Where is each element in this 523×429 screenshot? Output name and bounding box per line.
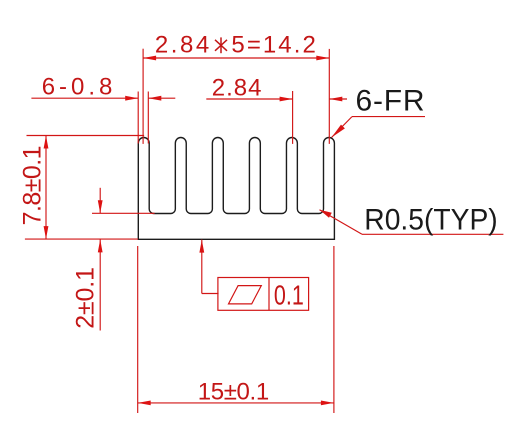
dim 6-0.8 arrow left (outside, pointing right) bbox=[125, 96, 138, 101]
dim 2.84 arrow left (outside, pointing right) bbox=[280, 97, 293, 102]
label 6-FR leader underline bbox=[352, 116, 425, 118]
svg-text:15±0.1: 15±0.1 bbox=[198, 379, 270, 406]
dim 2.84*5=14.2 dimension line bbox=[143, 57, 329, 59]
dim 7.8±0.1 extension line top bbox=[27, 135, 145, 137]
flatness parallelogram symbol bbox=[229, 286, 262, 304]
dim 2.84*5=14.2 arrow left bbox=[143, 56, 156, 61]
dim 15±0.1 extension line right bbox=[333, 246, 335, 413]
dim 2.84*5=14.2 extension line right (fin6 center) bbox=[328, 49, 330, 144]
dim 2±0.1 arrow down (tip at base top) bbox=[98, 200, 103, 213]
flatness frame divider bbox=[268, 278, 270, 311]
svg-text:6-0.8: 6-0.8 bbox=[42, 73, 113, 100]
label 6-FR leader diagonal bbox=[332, 117, 353, 138]
svg-text:5=14.2: 5=14.2 bbox=[231, 32, 315, 59]
svg-text:0.1: 0.1 bbox=[274, 279, 304, 310]
heatsink extrusion profile outline bbox=[138, 137, 334, 239]
dim 6-0.8 extension line right (fin1 right edge) bbox=[147, 92, 149, 144]
dim 2.84 extension line left (fin5 center) bbox=[292, 91, 294, 144]
svg-text:R0.5(TYP): R0.5(TYP) bbox=[364, 204, 497, 237]
dim 2.84 dimension line with text underline bbox=[206, 98, 292, 100]
dim 2±0.1 extension line (base top level) bbox=[92, 212, 155, 214]
label 6-FR leader arrow at fin6 tip bbox=[332, 125, 345, 138]
dim 15±0.1 arrow left bbox=[138, 401, 151, 406]
flatness frame leader vertical bbox=[201, 240, 203, 294]
dim 6-0.8 arrow right (outside, pointing left) bbox=[148, 96, 161, 101]
dim 15±0.1 dimension line bbox=[138, 402, 334, 404]
dim 15±0.1 extension line left bbox=[137, 246, 139, 413]
svg-text:7.8±0.1: 7.8±0.1 bbox=[19, 145, 47, 225]
label R0.5(TYP) leader arrow at fin valley radius bbox=[320, 210, 332, 218]
dim 7.8±0.1 dimension line bbox=[45, 136, 47, 240]
star glyph of 2.84*5=14.2 bbox=[215, 37, 227, 53]
dim 6-0.8 dimension line with text underline bbox=[31, 97, 138, 99]
flatness frame leader horizontal bbox=[202, 293, 219, 295]
label R0.5(TYP) leader underline bbox=[362, 233, 503, 235]
svg-text:6-FR: 6-FR bbox=[356, 85, 425, 118]
flatness feature control frame box bbox=[218, 278, 309, 311]
dim 7.8±0.1 extension line bottom bbox=[25, 238, 138, 240]
svg-text:2.84: 2.84 bbox=[155, 32, 209, 59]
svg-text:2.84: 2.84 bbox=[212, 74, 262, 101]
dim 6-0.8 tail line bbox=[148, 97, 175, 99]
label R0.5(TYP) leader diagonal bbox=[320, 210, 363, 235]
dim 2.84*5=14.2 arrow right bbox=[316, 56, 329, 61]
dim 2±0.1 arrow up (tip at base bottom) bbox=[98, 239, 103, 252]
dim 7.8±0.1 arrow top bbox=[44, 136, 49, 149]
dim 2.84 tail line bbox=[329, 98, 347, 100]
flatness frame leader arrow (tip at base bottom) bbox=[199, 240, 204, 253]
dim 2.84 arrow right (outside, pointing left) bbox=[329, 97, 342, 102]
svg-text:2±0.1: 2±0.1 bbox=[72, 267, 100, 329]
dim 15±0.1 arrow right bbox=[321, 401, 334, 406]
dim 2±0.1 lower leader bbox=[99, 239, 101, 330]
dim 7.8±0.1 arrow bottom bbox=[44, 226, 49, 239]
dim 2.84*5=14.2 extension line left (fin1 center) bbox=[142, 49, 144, 144]
dim 6-0.8 extension line left (fin1 left edge) bbox=[137, 92, 139, 144]
dim 2±0.1 upper leader bbox=[99, 188, 101, 214]
